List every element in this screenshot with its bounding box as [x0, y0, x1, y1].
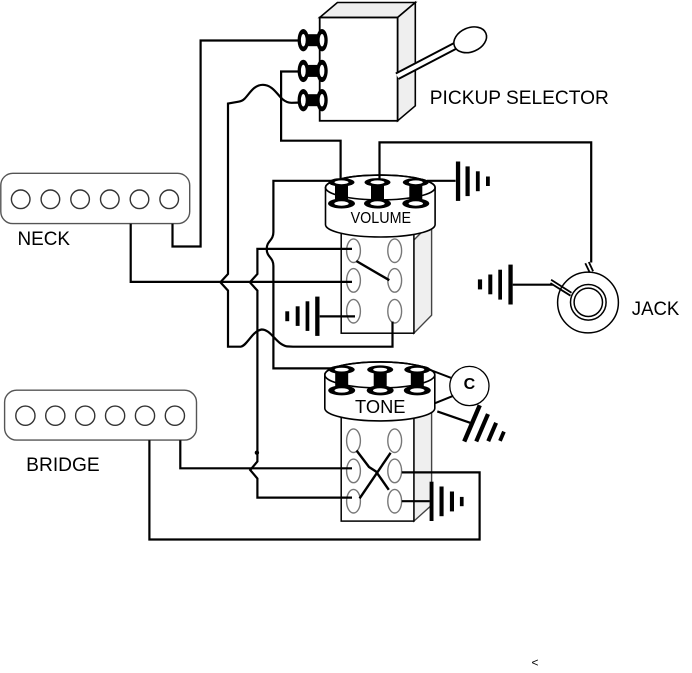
svg-text:PICKUP SELECTOR: PICKUP SELECTOR [430, 88, 609, 109]
volume switch lug B2 [388, 269, 402, 293]
svg-text:VOLUME: VOLUME [351, 210, 412, 227]
ground G5 (diagonal, tone right) [462, 404, 511, 455]
tone switch lug A2 [347, 459, 361, 483]
jack sleeve double lead [550, 280, 571, 296]
wire volume switch lug A1 to tone switch lug A3 (chevron hops) [250, 249, 352, 498]
ground G4 (tone bottom) [430, 482, 464, 521]
tone switch lug A3 [347, 489, 361, 513]
jack tip tab tick [585, 262, 593, 272]
neck pickup body [1, 173, 190, 223]
volume pot body [326, 175, 436, 237]
ground G3 (jack) [478, 265, 513, 305]
jack ring inner [574, 288, 602, 316]
volume pot terminal spool 1 [328, 178, 355, 208]
svg-text:TONE: TONE [355, 397, 406, 417]
pickup selector lug 3 [298, 89, 328, 111]
pickup selector box top face [320, 3, 416, 18]
tone switch front face [341, 391, 414, 521]
tone switch lug B2 [388, 459, 402, 483]
capacitor C circle [450, 366, 489, 405]
wire selector lug1 to neck [173, 41, 299, 247]
tone pot rim ellipse [325, 362, 435, 388]
tone switch lug B3 [388, 489, 402, 513]
volume switch lug B3 [388, 299, 402, 323]
wire pot casing to diagonal ground G5 [437, 411, 472, 423]
neck pickup poles [11, 190, 178, 209]
volume switch lug B1 [388, 239, 402, 263]
volume pot terminal spool 2 [364, 178, 391, 208]
volume switch lug A2 [347, 269, 361, 293]
tone pot body [325, 362, 435, 421]
svg-text:NECK: NECK [18, 229, 71, 250]
wire volume top lug1 to tone top lug1 (S-hop) [267, 181, 332, 369]
volume pot terminal spool 3 [402, 178, 429, 208]
tone pot terminal spool 1 [328, 365, 355, 395]
pickup selector lever shaft [396, 42, 460, 79]
volume pot rim ellipse [326, 175, 436, 200]
volume switch lug A3 [347, 299, 361, 323]
wire neck to volume switch lug A2 [131, 224, 352, 282]
wire tone switch lug B3 to ground G4 [402, 500, 430, 502]
volume switch front face [341, 230, 414, 333]
capacitor lead to tone lug3 [428, 369, 451, 378]
wire bridge to tone switch lug B2 (long bottom loop) [149, 440, 479, 539]
junction nub on volume-to-tone wire [255, 451, 259, 455]
tone switch side face [414, 373, 432, 521]
pickup selector box front face [320, 18, 398, 121]
svg-text:<: < [532, 656, 539, 670]
tone switch lug A1 [347, 429, 361, 453]
ground G2 (volume switch lower left) [285, 297, 319, 336]
svg-text:BRIDGE: BRIDGE [26, 455, 100, 476]
bridge pickup poles [16, 406, 185, 425]
wire selector lug2 to volume lug A top [281, 72, 341, 180]
svg-text:C: C [464, 376, 476, 393]
volume switch lug A1 [347, 239, 361, 263]
wire ground G3 toward jack [513, 284, 553, 286]
pickup selector lever ball tip [450, 22, 491, 57]
jack outer circle [558, 272, 619, 333]
jack ring outer [571, 285, 607, 321]
pickup selector lug 2 [298, 60, 328, 82]
tone switch jumper B1-A3 [360, 453, 391, 499]
svg-text:JACK: JACK [632, 299, 680, 320]
wire volume top lug3 to ground G1 [427, 180, 456, 182]
volume switch side face [414, 222, 432, 333]
tone pot terminal spool 2 [367, 365, 394, 395]
bridge pickup body [5, 390, 197, 440]
capacitor lead to pot casing [434, 396, 453, 404]
pickup selector box right face [398, 3, 416, 121]
wire ground G2 to volume switch lug A3 [320, 315, 355, 317]
ground G1 (volume top right) [456, 162, 490, 201]
wire volume top lug2 to jack tip [380, 142, 592, 262]
wire selector lug3 to volume switch lug B3 (hump + chevron + bump hops) [220, 85, 392, 347]
tone switch jumper A1-B3 [357, 451, 389, 490]
tone pot terminal spool 3 [404, 365, 431, 395]
wire bridge to tone switch lug A2 [180, 440, 352, 468]
volume switch jumper A1-B2 [356, 261, 389, 280]
pickup selector lug 1 [298, 29, 328, 51]
tone switch lug B1 [388, 429, 402, 453]
